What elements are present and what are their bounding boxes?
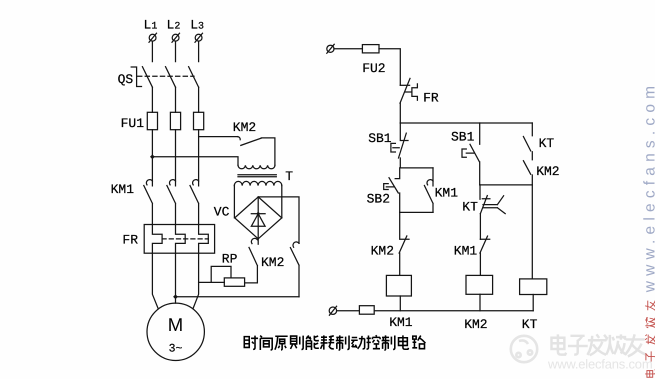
svg-text:www.elecfans.com: www.elecfans.com: [547, 357, 652, 372]
svg-text:VC: VC: [214, 205, 230, 220]
svg-text:www.elecfans.com: www.elecfans.com: [641, 81, 655, 294]
svg-text:SB1: SB1: [451, 130, 475, 145]
svg-text:KM2: KM2: [464, 317, 487, 332]
svg-text:FR: FR: [423, 91, 439, 106]
svg-text:FU1: FU1: [121, 116, 145, 131]
svg-text:FU2: FU2: [362, 61, 385, 76]
svg-text:KM2: KM2: [371, 244, 394, 259]
svg-text:KM2: KM2: [536, 164, 559, 179]
svg-text:KM1: KM1: [454, 244, 478, 259]
svg-text:KM1: KM1: [435, 186, 459, 201]
svg-text:KM1: KM1: [389, 315, 413, 330]
svg-text:SB2: SB2: [367, 191, 390, 206]
svg-text:M: M: [168, 314, 183, 335]
svg-text:SB1: SB1: [368, 131, 392, 146]
svg-text:L2: L2: [167, 18, 181, 33]
svg-text:T: T: [285, 169, 293, 184]
svg-text:FR: FR: [122, 233, 138, 248]
svg-text:L1: L1: [144, 18, 158, 33]
svg-text:L3: L3: [190, 18, 204, 33]
svg-text:KT: KT: [462, 200, 478, 215]
svg-text:KM2: KM2: [261, 255, 284, 270]
svg-text:3~: 3~: [169, 342, 183, 355]
svg-text:KT: KT: [522, 317, 538, 332]
svg-text:KM1: KM1: [111, 182, 135, 197]
svg-text:KM2: KM2: [233, 120, 256, 135]
svg-text:QS: QS: [118, 72, 134, 87]
svg-text:KT: KT: [539, 136, 555, 151]
svg-text:RP: RP: [222, 252, 238, 267]
